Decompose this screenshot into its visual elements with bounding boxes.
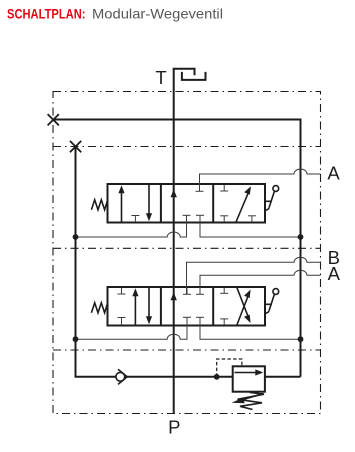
node junction right trunk V2: [298, 336, 304, 342]
wire V1 port A line: [200, 169, 321, 191]
wire left trunk: [76, 147, 117, 377]
valve V2 pos1 bottom blocked port: [118, 318, 126, 326]
wire V2 right link: [200, 317, 301, 339]
svg-text:P: P: [168, 417, 180, 438]
relief valve RV body: [233, 366, 265, 391]
valve V1 pos1 up arrow: [118, 185, 124, 221]
valve V1 pos3 bottom blocked port left: [220, 216, 228, 222]
svg-text:A: A: [327, 162, 340, 183]
wire V2 port A line: [200, 270, 321, 294]
node T tank symbol: [174, 69, 206, 80]
valve V2 pos3 cross arrow SE: [237, 288, 251, 324]
valve V1 pos2 bottom blocked port left: [183, 214, 191, 216]
valve V2 body: [108, 287, 266, 326]
valve V2 pos2 top blocked port left: [183, 288, 191, 294]
node junction left trunk V1: [73, 234, 79, 240]
enclosure border (valve block outline, dash-dot): [53, 92, 321, 414]
valve V2 pos1 top blocked port: [118, 288, 126, 294]
wire V2 left link: [76, 317, 188, 339]
valve V1 pos1 blocked port: [131, 216, 139, 223]
valve V1 pos2 through-flow arrow: [171, 189, 177, 197]
plugged port X1: [48, 114, 59, 125]
valve V2 pos3 bottom blocked port: [220, 319, 228, 325]
relief valve RV spring: [238, 392, 265, 409]
relief valve RV flow arrow: [235, 369, 264, 375]
wire pilot line (dashed): [217, 359, 242, 377]
valve V1 pos3 top blocked port: [220, 185, 228, 191]
valve V1 pos1 down arrow: [146, 185, 152, 221]
valve V1 pos2 top blocked port: [196, 185, 204, 191]
module separator 1: [53, 146, 321, 148]
svg-text:T: T: [155, 67, 166, 88]
valve V2 pos1 down arrow: [146, 288, 152, 324]
check valve: [116, 369, 127, 384]
valve V1 pos2 bottom blocked port right: [196, 214, 204, 216]
node pilot tap junction: [214, 374, 220, 380]
wire bottom line: [116, 376, 232, 378]
wire P/T main line: [173, 69, 175, 414]
valve V1 spring: [91, 200, 107, 210]
relief valve RV adjustment arrow: [232, 394, 264, 404]
valve V1 lever: [265, 186, 279, 211]
valve V1 pos3 bottom blocked port right: [248, 216, 256, 222]
wire V2 port B line: [187, 257, 321, 294]
valve V2 pos1 up arrow: [132, 288, 138, 324]
module separator 3: [53, 349, 321, 351]
wire V1 right link: [200, 215, 301, 237]
valve V2 pos2 bottom blocked port right: [196, 316, 204, 318]
valve V2 pos2 through-flow arrow: [171, 292, 177, 300]
valve V2 spring: [91, 303, 107, 313]
valve V2 pos2 top blocked port right: [196, 288, 204, 294]
valve V1 pos3 diagonal arrow: [236, 186, 251, 222]
wire top supply line: [53, 120, 301, 377]
plugged port X2: [70, 141, 81, 152]
valve V2 pos2 bottom blocked port left: [183, 316, 191, 318]
module separator 2: [53, 247, 321, 249]
valve V2 pos3 cross arrow NE: [237, 290, 251, 326]
valve V2 pos3 top blocked port: [220, 288, 228, 293]
valve V1 body: [108, 184, 266, 223]
node junction left trunk V2: [73, 336, 79, 342]
valve V2 lever: [265, 289, 279, 314]
svg-text:A: A: [328, 263, 341, 284]
svg-text:Modular-Wegeventil: Modular-Wegeventil: [92, 6, 223, 22]
node junction right trunk V1: [298, 234, 304, 240]
svg-text:SCHALTPLAN:: SCHALTPLAN:: [7, 6, 86, 22]
wire V1 left link: [76, 215, 187, 237]
wire relief to right trunk: [265, 376, 301, 378]
